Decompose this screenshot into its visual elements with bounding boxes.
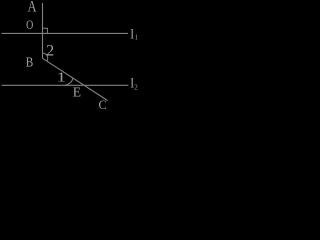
wire: diagonal ray B to C — [43, 58, 108, 100]
svg-text:1: 1 — [135, 34, 139, 42]
wire: horizontal line l1 — [2, 32, 129, 34]
svg-text:l: l — [130, 28, 134, 43]
svg-text:O: O — [26, 18, 33, 32]
node O right-angle marker — [43, 28, 48, 33]
svg-text:A: A — [28, 0, 38, 15]
svg-text:C: C — [99, 98, 107, 110]
node E angle-1 arc — [65, 78, 73, 85]
wire: horizontal line l2 — [2, 84, 129, 86]
svg-text:2: 2 — [134, 84, 138, 92]
wire: vertical ray A through O to B — [42, 3, 44, 58]
svg-text:B: B — [26, 56, 34, 71]
svg-text:2: 2 — [46, 43, 54, 60]
node B angle-2 arc — [43, 53, 48, 61]
svg-text:1: 1 — [57, 71, 66, 86]
background — [0, 0, 140, 110]
svg-text:E: E — [73, 85, 81, 100]
